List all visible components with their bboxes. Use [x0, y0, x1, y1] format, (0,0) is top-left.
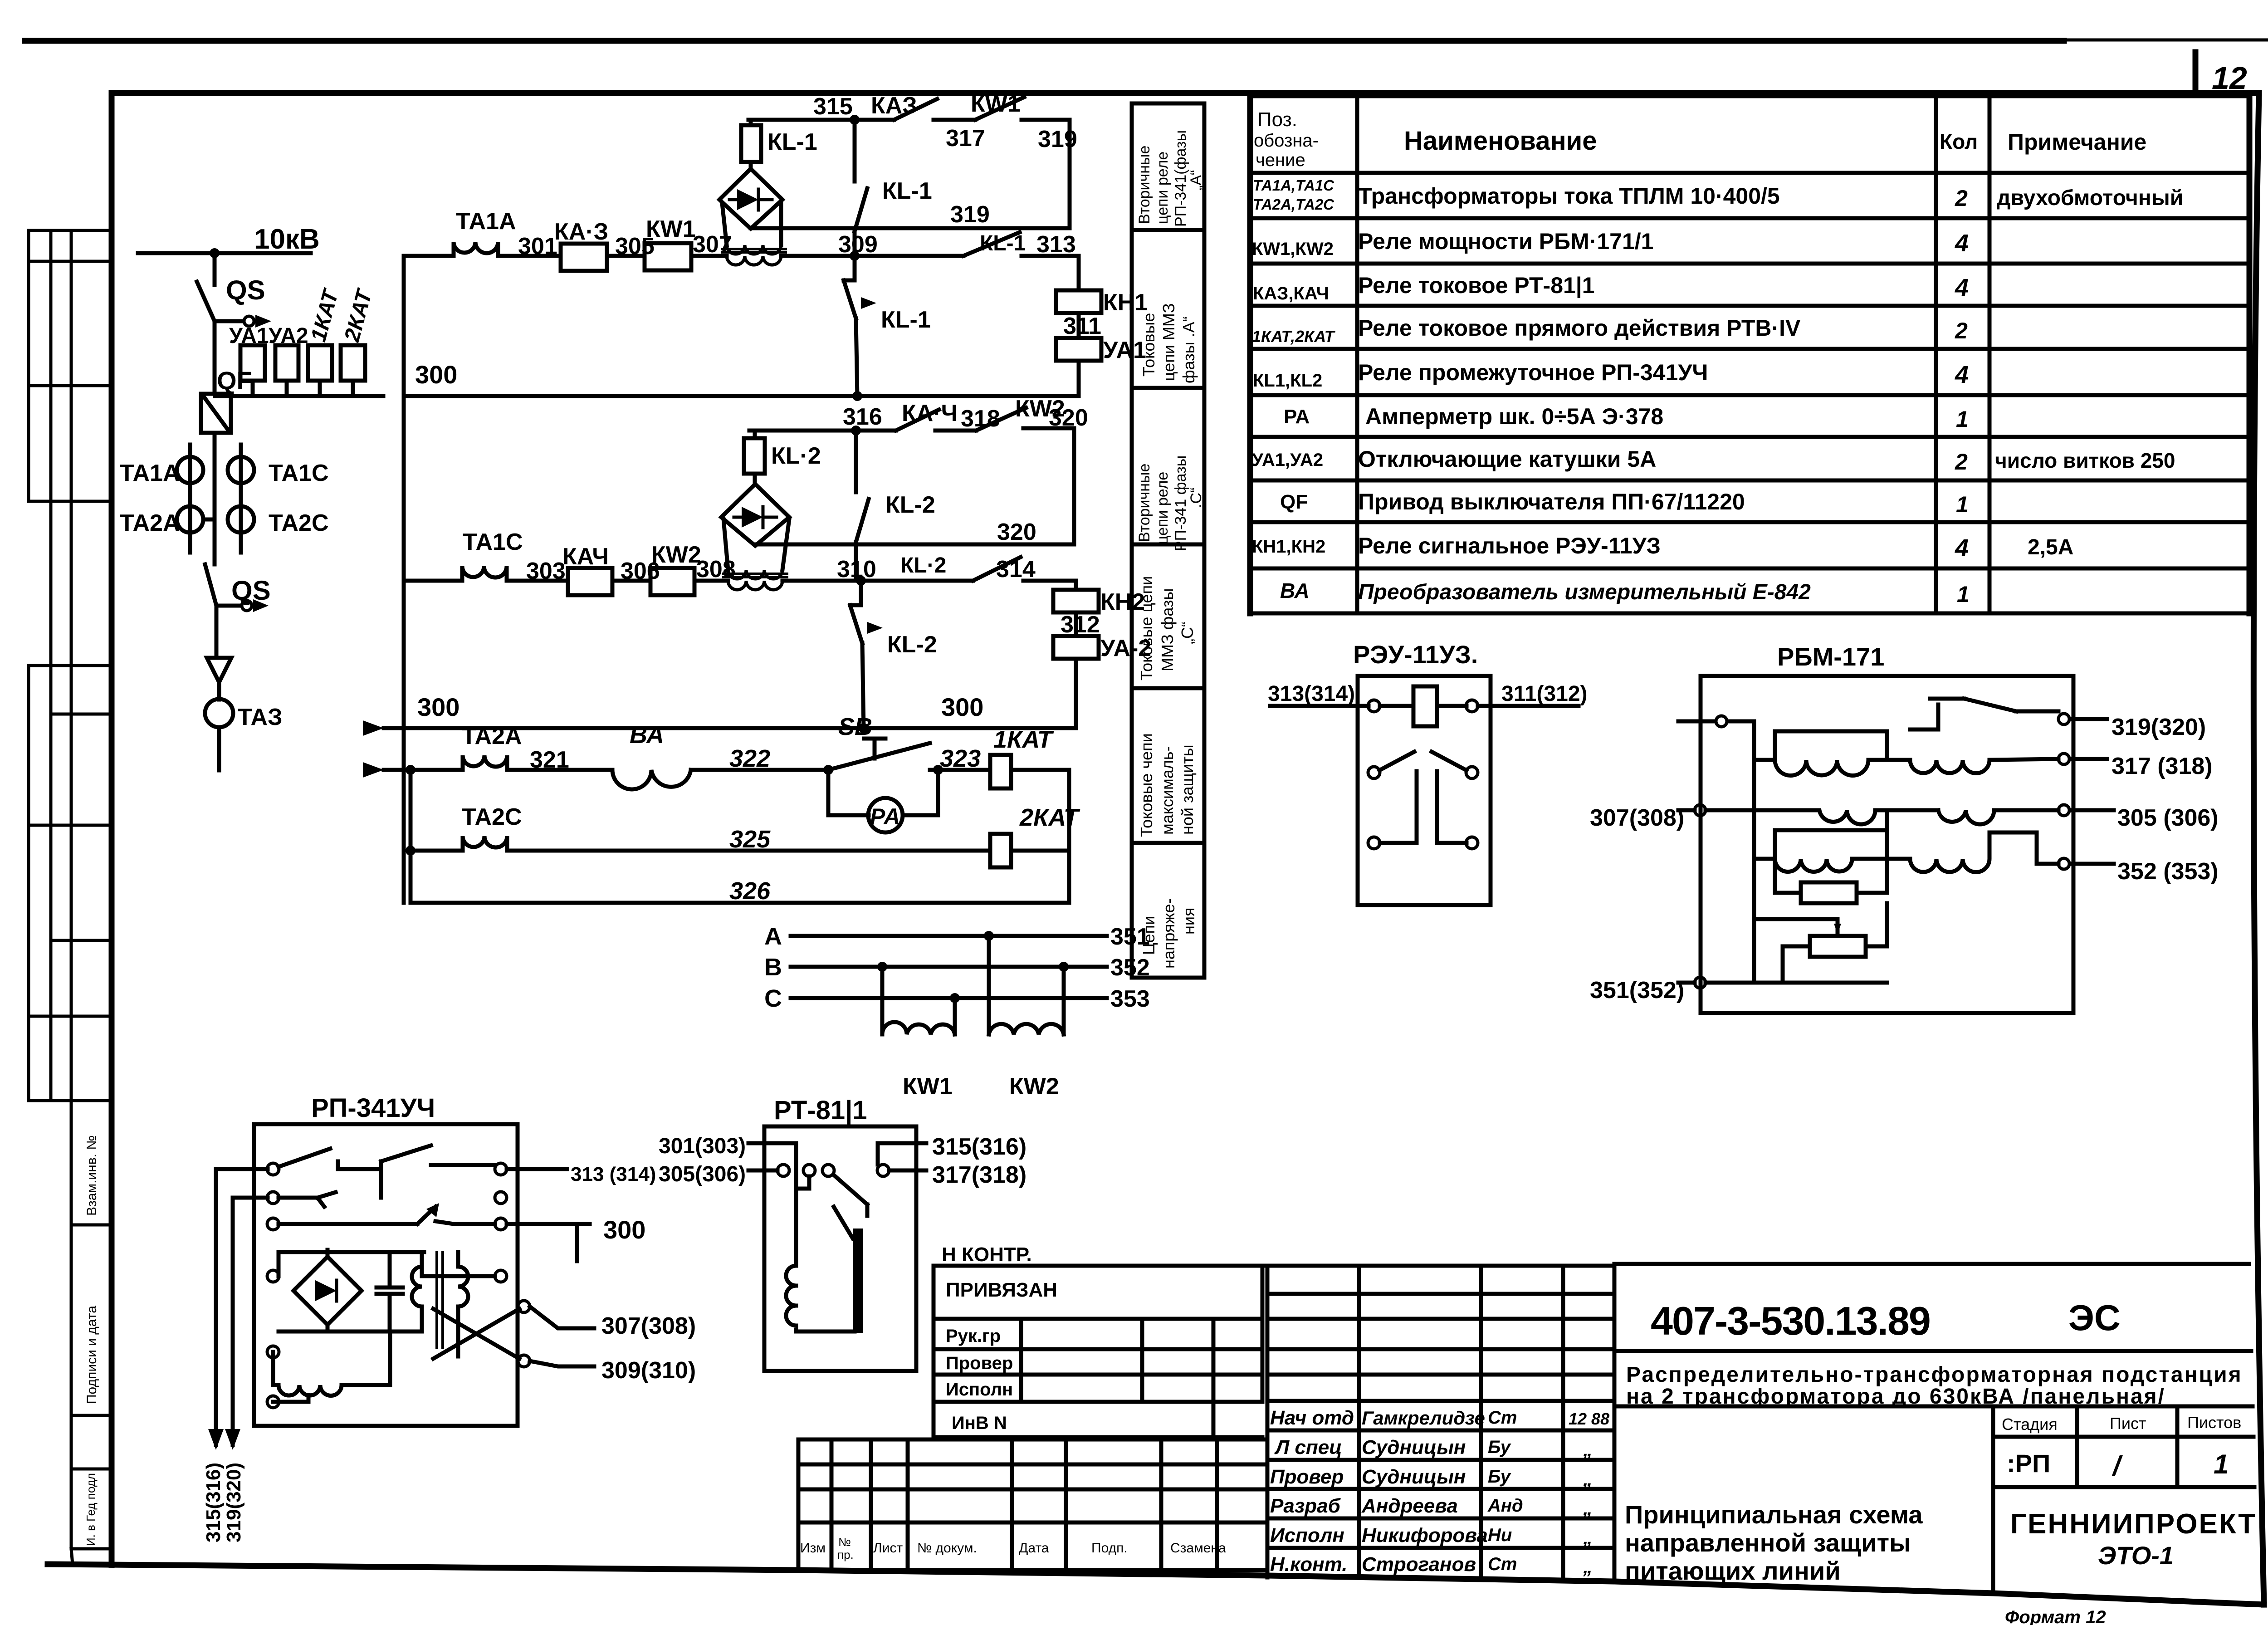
contact KW1	[975, 97, 1024, 120]
drawout contact circle	[244, 316, 254, 326]
KW2 voltage winding	[989, 936, 1064, 1034]
svg-text:Подп.: Подп.	[1091, 1541, 1128, 1556]
relay coil KL-1	[741, 125, 761, 162]
svg-text:КW1: КW1	[903, 1073, 953, 1100]
wire 317	[934, 118, 975, 122]
svg-text:326: 326	[729, 877, 771, 905]
svg-text:ВА: ВА	[1280, 579, 1310, 602]
svg-text:.С“: .С“	[1188, 488, 1205, 508]
svg-text:РА: РА	[1284, 406, 1310, 428]
left margin strip verticals	[29, 230, 73, 1564]
svg-text:КL-1: КL-1	[767, 129, 817, 155]
svg-text:303: 303	[526, 558, 566, 584]
wire 322	[691, 768, 828, 772]
svg-text:№ докум.: № докум.	[917, 1541, 977, 1556]
svg-text:1: 1	[2214, 1449, 2229, 1479]
winding B1	[1706, 810, 1938, 824]
wire right side of row1 loop	[1068, 120, 1072, 228]
svg-text:319(320): 319(320)	[2112, 714, 2206, 740]
arrow continuation row3	[354, 762, 384, 778]
svg-text:Токовые чепи: Токовые чепи	[1137, 733, 1156, 837]
terminal	[1466, 700, 1478, 712]
rectifier bridge VD1	[719, 169, 782, 229]
svg-text:КН1,КН2: КН1,КН2	[1252, 537, 1325, 557]
svg-text:1КАТ,2КАТ: 1КАТ,2КАТ	[1252, 327, 1336, 346]
node B right	[1059, 962, 1069, 972]
lead 315(316)	[878, 1141, 926, 1145]
svg-text:КW2: КW2	[651, 542, 701, 568]
box Токовые цепи ММЗ фазы С	[1132, 544, 1204, 688]
wire QS to QF	[213, 321, 217, 394]
svg-text:10кВ: 10кВ	[254, 224, 320, 255]
wire 300 bus row2	[384, 726, 1076, 730]
svg-text:Вторичные: Вторичные	[1136, 464, 1153, 542]
svg-text:„А“: „А“	[1188, 170, 1205, 191]
svg-text:ния: ния	[1179, 908, 1198, 935]
svg-text:Амперметр шк. 0÷5А Э·37: Амперметр шк. 0÷5А Э·378	[1365, 404, 1663, 429]
svg-text:4: 4	[1955, 230, 1969, 257]
contact KL-1 on vertical	[855, 120, 867, 256]
svg-text:цепи реле: цепи реле	[1154, 152, 1171, 224]
winding A1	[1754, 760, 1887, 776]
svg-text:на 2 трансформатора до 630: на 2 трансформатора до 630кВА /панельная…	[1626, 1385, 2165, 1409]
wire secondary to bridge	[722, 203, 781, 245]
svg-text:ТА1А,ТА1С: ТА1А,ТА1С	[1253, 177, 1334, 194]
svg-text:Провер: Провер	[946, 1353, 1013, 1373]
svg-text:фазы .А“: фазы .А“	[1179, 316, 1198, 383]
wire 310	[782, 579, 902, 583]
svg-text:число витков 250: число витков 250	[1995, 449, 2175, 472]
svg-text:Поз.: Поз.	[1257, 108, 1297, 131]
bridge VD2 diode	[742, 507, 763, 528]
svg-text:ТА2А,ТА2С: ТА2А,ТА2С	[1253, 196, 1334, 213]
svg-text:1: 1	[1956, 492, 1969, 517]
svg-text:И. в Гед подл: И. в Гед подл	[84, 1473, 98, 1546]
CT pass line phase A	[188, 445, 192, 553]
svg-text:Гамкрелидзе: Гамкрелидзе	[1362, 1407, 1485, 1429]
node 310 junction	[856, 576, 866, 586]
svg-text:Реле промежуточное РП-341У: Реле промежуточное РП-341УЧ	[1358, 360, 1708, 385]
svg-text:ЭС: ЭС	[2068, 1297, 2121, 1338]
svg-text:напряже-: напряже-	[1159, 898, 1178, 969]
wire QF down	[213, 433, 217, 564]
CT TA1C winding on line 303	[404, 566, 568, 581]
top rule of sheet	[25, 38, 2064, 44]
right terminals	[495, 1163, 507, 1175]
wire 311	[1077, 313, 1081, 338]
svg-text:Привод выключателя ПП·67/1: Привод выключателя ПП·67/11220	[1358, 489, 1745, 514]
svg-text:305(306): 305(306)	[659, 1162, 746, 1186]
arrow continuation 300 bus	[354, 720, 384, 736]
svg-text:307(308): 307(308)	[601, 1313, 696, 1339]
wire 312	[1074, 612, 1078, 636]
lead 300	[507, 1224, 590, 1261]
svg-text:КА·З: КА·З	[554, 219, 608, 245]
coil 2KAT (symbol)	[341, 345, 365, 381]
lead 309(310)	[530, 1361, 594, 1366]
signal relay coil KH2	[1053, 590, 1099, 612]
svg-text:КАЗ,КАЧ: КАЗ,КАЧ	[1253, 284, 1329, 303]
wire to delivery triangle	[215, 606, 219, 658]
lead 307(308)	[530, 1307, 594, 1328]
wire 1KAT to right vertical	[1011, 768, 1069, 772]
svg-text:Взам.инв. №: Взам.инв. №	[84, 1135, 99, 1216]
svg-text:Реле токовое РТ-81|1: Реле токовое РТ-81|1	[1358, 273, 1595, 299]
svg-text:Исполн: Исполн	[1270, 1524, 1344, 1547]
wire coil to bridge	[749, 162, 753, 169]
svg-text:320: 320	[997, 519, 1036, 545]
wire KL-2 coil to bridge	[753, 474, 757, 484]
svg-text:РП-341 фазы: РП-341 фазы	[1172, 455, 1189, 551]
svg-text:351(352): 351(352)	[1590, 977, 1684, 1003]
svg-text:Андреева: Андреева	[1361, 1495, 1458, 1517]
trip coil YA1 (symbol)	[240, 345, 265, 381]
internal wiring of РТ	[796, 1143, 878, 1266]
svg-text:313(314): 313(314)	[1268, 682, 1355, 706]
svg-text:Реле сигнальное: Реле сигнальное РЭУ-11УЗ	[1358, 533, 1661, 558]
svg-text:пр.: пр.	[837, 1548, 854, 1561]
svg-text:323: 323	[940, 745, 981, 772]
svg-text:„: „	[1583, 1527, 1593, 1548]
cross connected contacts	[433, 1309, 519, 1359]
svg-text:КА·Ч: КА·Ч	[902, 400, 958, 426]
wire bottom 351	[1706, 946, 1887, 983]
linkage of РТ	[834, 1207, 853, 1238]
svg-text:SВ: SВ	[838, 713, 872, 740]
relay coil KA-4	[568, 568, 612, 595]
svg-text:Исполн: Исполн	[946, 1380, 1013, 1400]
svg-text:Вторичные: Вторичные	[1136, 146, 1153, 224]
svg-text:ТА2А: ТА2А	[462, 723, 522, 749]
lead 317(318)	[889, 1169, 926, 1173]
svg-text:РТ-81|1: РТ-81|1	[774, 1096, 867, 1125]
contact terminals of РЭУ	[1368, 767, 1380, 778]
wire UA1 to 300 bus	[1077, 361, 1081, 396]
terminal	[1368, 700, 1380, 712]
svg-text:Токовые: Токовые	[1139, 313, 1158, 377]
node on 315 branch	[850, 115, 860, 125]
wire 307	[691, 254, 727, 258]
svg-text:цепи ММЗ: цепи ММЗ	[1159, 303, 1178, 381]
svg-text:Дата: Дата	[1019, 1541, 1049, 1556]
wire 321 line with TA2A	[384, 755, 612, 770]
svg-text:Ст: Ст	[1488, 1408, 1517, 1428]
svg-text:Наименование: Наименование	[1404, 126, 1597, 156]
CT pass line phase C	[239, 445, 243, 553]
svg-text:РП-341УЧ: РП-341УЧ	[311, 1093, 435, 1123]
capacitor of РП	[376, 1252, 403, 1331]
svg-text:Сзамена: Сзамена	[1170, 1541, 1226, 1556]
svg-text:Бу: Бу	[1488, 1467, 1511, 1487]
relay KW box	[1701, 676, 2073, 1013]
bottom coil of РП	[273, 1331, 390, 1395]
signature grid	[1267, 1266, 1614, 1581]
wire 320 top	[1023, 426, 1074, 431]
svg-text:Пистов: Пистов	[2187, 1413, 2241, 1432]
winding C2	[1887, 832, 2058, 872]
svg-text:ВА: ВА	[630, 721, 664, 749]
wire 323	[930, 768, 990, 772]
top internal bus	[279, 1252, 495, 1276]
svg-text:12 88: 12 88	[1569, 1410, 1609, 1428]
contact inside РБМ	[1910, 699, 2058, 729]
ammeter shunt branch right	[903, 770, 938, 815]
svg-text:ТА1А: ТА1А	[120, 460, 180, 486]
node A	[984, 931, 994, 941]
coil 1KAT	[990, 755, 1011, 788]
svg-text:ИнВ N: ИнВ N	[952, 1413, 1007, 1433]
svg-text:максималь-: максималь-	[1158, 746, 1177, 835]
svg-text:Формат 12: Формат 12	[2005, 1607, 2106, 1625]
svg-text:Отключающие катушки 5А: Отключающие катушки 5А	[1358, 446, 1656, 472]
KW1 voltage winding	[882, 967, 955, 1034]
svg-text:цепи реле: цепи реле	[1154, 472, 1171, 544]
contact KL-1 in line 309-313	[963, 232, 1020, 256]
svg-text:2: 2	[1955, 318, 1968, 343]
CT TA2C circle	[228, 506, 254, 533]
svg-text:ММЗ фазы: ММЗ фазы	[1158, 588, 1177, 671]
node KL-1 on 300 bus	[852, 391, 862, 401]
rectifier bridge of РП	[293, 1257, 362, 1325]
wire C loop	[1775, 810, 1887, 859]
svg-text:„: „	[1583, 1556, 1593, 1577]
box Токовые цепи ММЗ фазы А	[1132, 230, 1204, 388]
svg-text:Н КОНТР.: Н КОНТР.	[942, 1243, 1032, 1266]
wire 315 branch	[748, 118, 894, 122]
svg-text:КL·2: КL·2	[771, 443, 821, 469]
svg-text:Судницын: Судницын	[1362, 1466, 1466, 1488]
main title block grid	[1614, 1264, 2254, 1594]
switch SB	[828, 739, 930, 770]
svg-text:Трансформаторы тока ТПЛМ 10: Трансформаторы тока ТПЛМ 10·400/5	[1358, 183, 1780, 209]
disconnector QS (upper)	[197, 282, 215, 321]
svg-text:двухобмоточный: двухобмоточный	[1997, 186, 2183, 210]
transformer core of РП	[437, 1252, 443, 1347]
CT TA1A circle	[177, 457, 203, 483]
svg-text:ТА2С: ТА2С	[462, 804, 522, 830]
lead 305(306)	[2070, 808, 2114, 812]
svg-text:„: „	[1583, 1498, 1593, 1519]
trip coil UA2	[1053, 636, 1099, 659]
svg-text:4: 4	[1955, 534, 1969, 562]
svg-text:4: 4	[1955, 274, 1969, 301]
svg-text:ТА2А: ТА2А	[120, 510, 180, 536]
wire right side of row2 loop	[1072, 428, 1076, 544]
svg-text:1: 1	[1957, 582, 1970, 607]
bus 10kV	[138, 251, 311, 255]
svg-text:Разраб: Разраб	[1270, 1495, 1341, 1517]
contact 1	[279, 1149, 381, 1169]
link TA2A to main line	[203, 518, 215, 522]
svg-text:С: С	[764, 985, 782, 1012]
svg-text:КL1,КL2: КL1,КL2	[1253, 371, 1322, 391]
rectifier bridge VD2	[721, 484, 789, 546]
svg-text:322: 322	[729, 745, 770, 772]
svg-text:№: №	[838, 1535, 851, 1549]
svg-text:„: „	[1583, 1439, 1593, 1460]
svg-text:317(318): 317(318)	[932, 1162, 1026, 1188]
top left stub	[1678, 720, 1716, 724]
left margin strip horizontals	[29, 230, 112, 1549]
wire 319 top	[1022, 118, 1070, 122]
latching contact KL-1 lower	[844, 256, 857, 396]
wire lower QS to contact	[216, 604, 241, 608]
winding C1	[1754, 859, 1887, 871]
svg-text:КL·2: КL·2	[900, 553, 946, 578]
svg-text:317: 317	[946, 125, 985, 152]
svg-text:2,5А: 2,5А	[2028, 535, 2073, 559]
svg-text:КАЧ: КАЧ	[562, 543, 609, 570]
svg-text:Распределительно-трансформатор: Распределительно-трансформаторная подста…	[1626, 1363, 2243, 1387]
svg-text:ЭТО-1: ЭТО-1	[2098, 1541, 2174, 1570]
svg-text:Провер: Провер	[1270, 1466, 1344, 1488]
svg-text:РБМ-171: РБМ-171	[1777, 642, 1884, 671]
relay coil KL-2	[744, 438, 765, 474]
wire coil bus	[215, 394, 383, 398]
terminal	[1716, 716, 1727, 727]
svg-text:ПРИВЯЗАН: ПРИВЯЗАН	[946, 1279, 1057, 1301]
box Вторичные цепи реле РП-341 фазы С	[1132, 388, 1204, 544]
winding B2	[1938, 810, 2058, 824]
svg-text:313 (314): 313 (314)	[571, 1163, 656, 1185]
svg-text:РЭУ-11УЗ.: РЭУ-11УЗ.	[1353, 640, 1478, 669]
svg-text:317 (318): 317 (318)	[2112, 753, 2213, 779]
svg-text:311: 311	[1063, 313, 1101, 339]
svg-text:300: 300	[941, 693, 983, 721]
wire triangle to TA3	[217, 682, 221, 700]
svg-text:ГЕННИИПРОЕКТ: ГЕННИИПРОЕКТ	[2010, 1508, 2257, 1540]
transformer T2 core	[723, 574, 787, 577]
node SB left	[823, 765, 833, 775]
svg-text:311(312): 311(312)	[1501, 682, 1588, 706]
wire 320 lower branch	[755, 543, 1074, 547]
svg-text:ТАЗ: ТАЗ	[238, 704, 283, 730]
svg-text:Цепи: Цепи	[1139, 916, 1158, 955]
wire corner 313 down	[1077, 256, 1081, 290]
wire QS to drawout contact	[215, 319, 243, 323]
svg-text:Пист: Пист	[2110, 1414, 2146, 1433]
svg-text:ной защиты: ной защиты	[1178, 744, 1197, 835]
armature bar of РТ	[853, 1229, 863, 1333]
svg-text:питающих линий: питающих линий	[1625, 1556, 1841, 1585]
wire 306	[612, 579, 650, 583]
svg-text:РП-341(фазы: РП-341(фазы	[1172, 130, 1189, 227]
wire 325 with TA2C	[411, 836, 990, 851]
svg-text:КL-1: КL-1	[882, 178, 932, 204]
svg-text:QF: QF	[1280, 491, 1308, 513]
potentiometer R2	[1810, 936, 1866, 957]
relay KL box	[254, 1124, 518, 1426]
svg-text:направленной защиты: направленной защиты	[1625, 1528, 1911, 1557]
node row3 left	[406, 765, 415, 775]
svg-text:КL-2: КL-2	[885, 492, 935, 518]
svg-text:2КАТ: 2КАТ	[1019, 804, 1080, 831]
svg-text:300: 300	[417, 693, 459, 721]
lead 351(352)	[1678, 981, 1695, 985]
svg-text:Нач отд: Нач отд	[1270, 1407, 1354, 1429]
ammeter PA	[868, 798, 903, 832]
wire 314	[1023, 579, 1076, 583]
wire terminal to bottom	[273, 1395, 308, 1402]
svg-text:320: 320	[1049, 405, 1088, 431]
svg-text:1: 1	[1956, 406, 1969, 432]
svg-text:Анд: Анд	[1487, 1496, 1523, 1516]
wire A loop	[1775, 731, 1887, 760]
svg-text:Н.конт.: Н.конт.	[1270, 1553, 1348, 1576]
lead 352(353)	[2070, 862, 2114, 866]
svg-text:КН1: КН1	[1103, 289, 1148, 316]
svg-text:1КАТ: 1КАТ	[993, 726, 1054, 753]
drawout arrow	[255, 315, 271, 328]
wire coil to 315 branch	[749, 120, 753, 125]
disconnector QS (lower)	[205, 564, 216, 606]
node 309 junction	[850, 251, 860, 261]
svg-text:325: 325	[729, 826, 771, 853]
svg-text:407-3-530.13.89: 407-3-530.13.89	[1651, 1298, 1930, 1343]
svg-text:312: 312	[1061, 612, 1100, 638]
contact bars of РЭУ	[1380, 771, 1466, 843]
wire KL-2 coil to 316 branch	[753, 431, 757, 438]
node KL-2 on 300 bus	[859, 723, 869, 733]
node on 316 branch	[851, 426, 861, 436]
svg-text:КL-1: КL-1	[881, 307, 931, 333]
svg-text:2: 2	[1955, 449, 1968, 475]
trip coil UA1	[1056, 338, 1101, 361]
svg-text:Подписи и дата: Подписи и дата	[84, 1306, 99, 1404]
svg-text:ТА1А: ТА1А	[456, 208, 516, 235]
primary winding of РП transformer	[412, 1252, 422, 1331]
wire 318	[935, 429, 976, 433]
node on 10kV bus	[210, 248, 220, 258]
wire 300 bus row1	[404, 394, 1079, 398]
wire 308	[694, 579, 728, 583]
svg-text:Примечание: Примечание	[2008, 129, 2146, 155]
transformer T1 core	[722, 249, 786, 252]
contact KW2	[976, 408, 1026, 431]
svg-text:КW2: КW2	[1009, 1073, 1059, 1100]
svg-text:КW1: КW1	[971, 91, 1021, 117]
left terminals	[267, 1163, 279, 1175]
contact 2	[279, 1145, 495, 1207]
wire UA2 to 300 bus	[1074, 659, 1078, 728]
relay coil KW1	[645, 243, 691, 270]
cable termination triangle	[207, 658, 231, 682]
svg-text:316: 316	[843, 404, 882, 430]
relay coil KA-3	[561, 244, 607, 271]
svg-text:Никифорова: Никифорова	[1362, 1524, 1488, 1547]
contact KL-2 in line 310-314	[902, 557, 1021, 581]
svg-text:Ст: Ст	[1488, 1554, 1517, 1574]
svg-text:301(303): 301(303)	[659, 1134, 746, 1158]
svg-text:УА1,УА2: УА1,УА2	[1252, 450, 1323, 470]
lead 305(306)	[748, 1169, 777, 1173]
svg-text:„: „	[1583, 1468, 1593, 1490]
lower drawout arrow	[253, 599, 269, 612]
svg-text:Преобразователь измерительный: Преобразователь измерительный Е-842	[1358, 580, 1811, 604]
bottom bus of РП	[279, 1330, 422, 1334]
wire corner 314 down	[1074, 581, 1078, 590]
svg-text:КL-1: КL-1	[980, 231, 1026, 255]
svg-text:Реле токовое прямого действ: Реле токовое прямого действия РТВ·IV	[1358, 315, 1801, 341]
attachment mini-table	[934, 1266, 1614, 1577]
transducer BA winding	[612, 770, 691, 789]
contact blades of РЭУ	[1379, 752, 1466, 770]
svg-text:309(310): 309(310)	[601, 1357, 696, 1384]
wire 305	[607, 254, 645, 258]
arrows down	[208, 1429, 240, 1450]
circuit breaker QF	[201, 394, 231, 433]
contact 3 with latch	[279, 1207, 495, 1224]
